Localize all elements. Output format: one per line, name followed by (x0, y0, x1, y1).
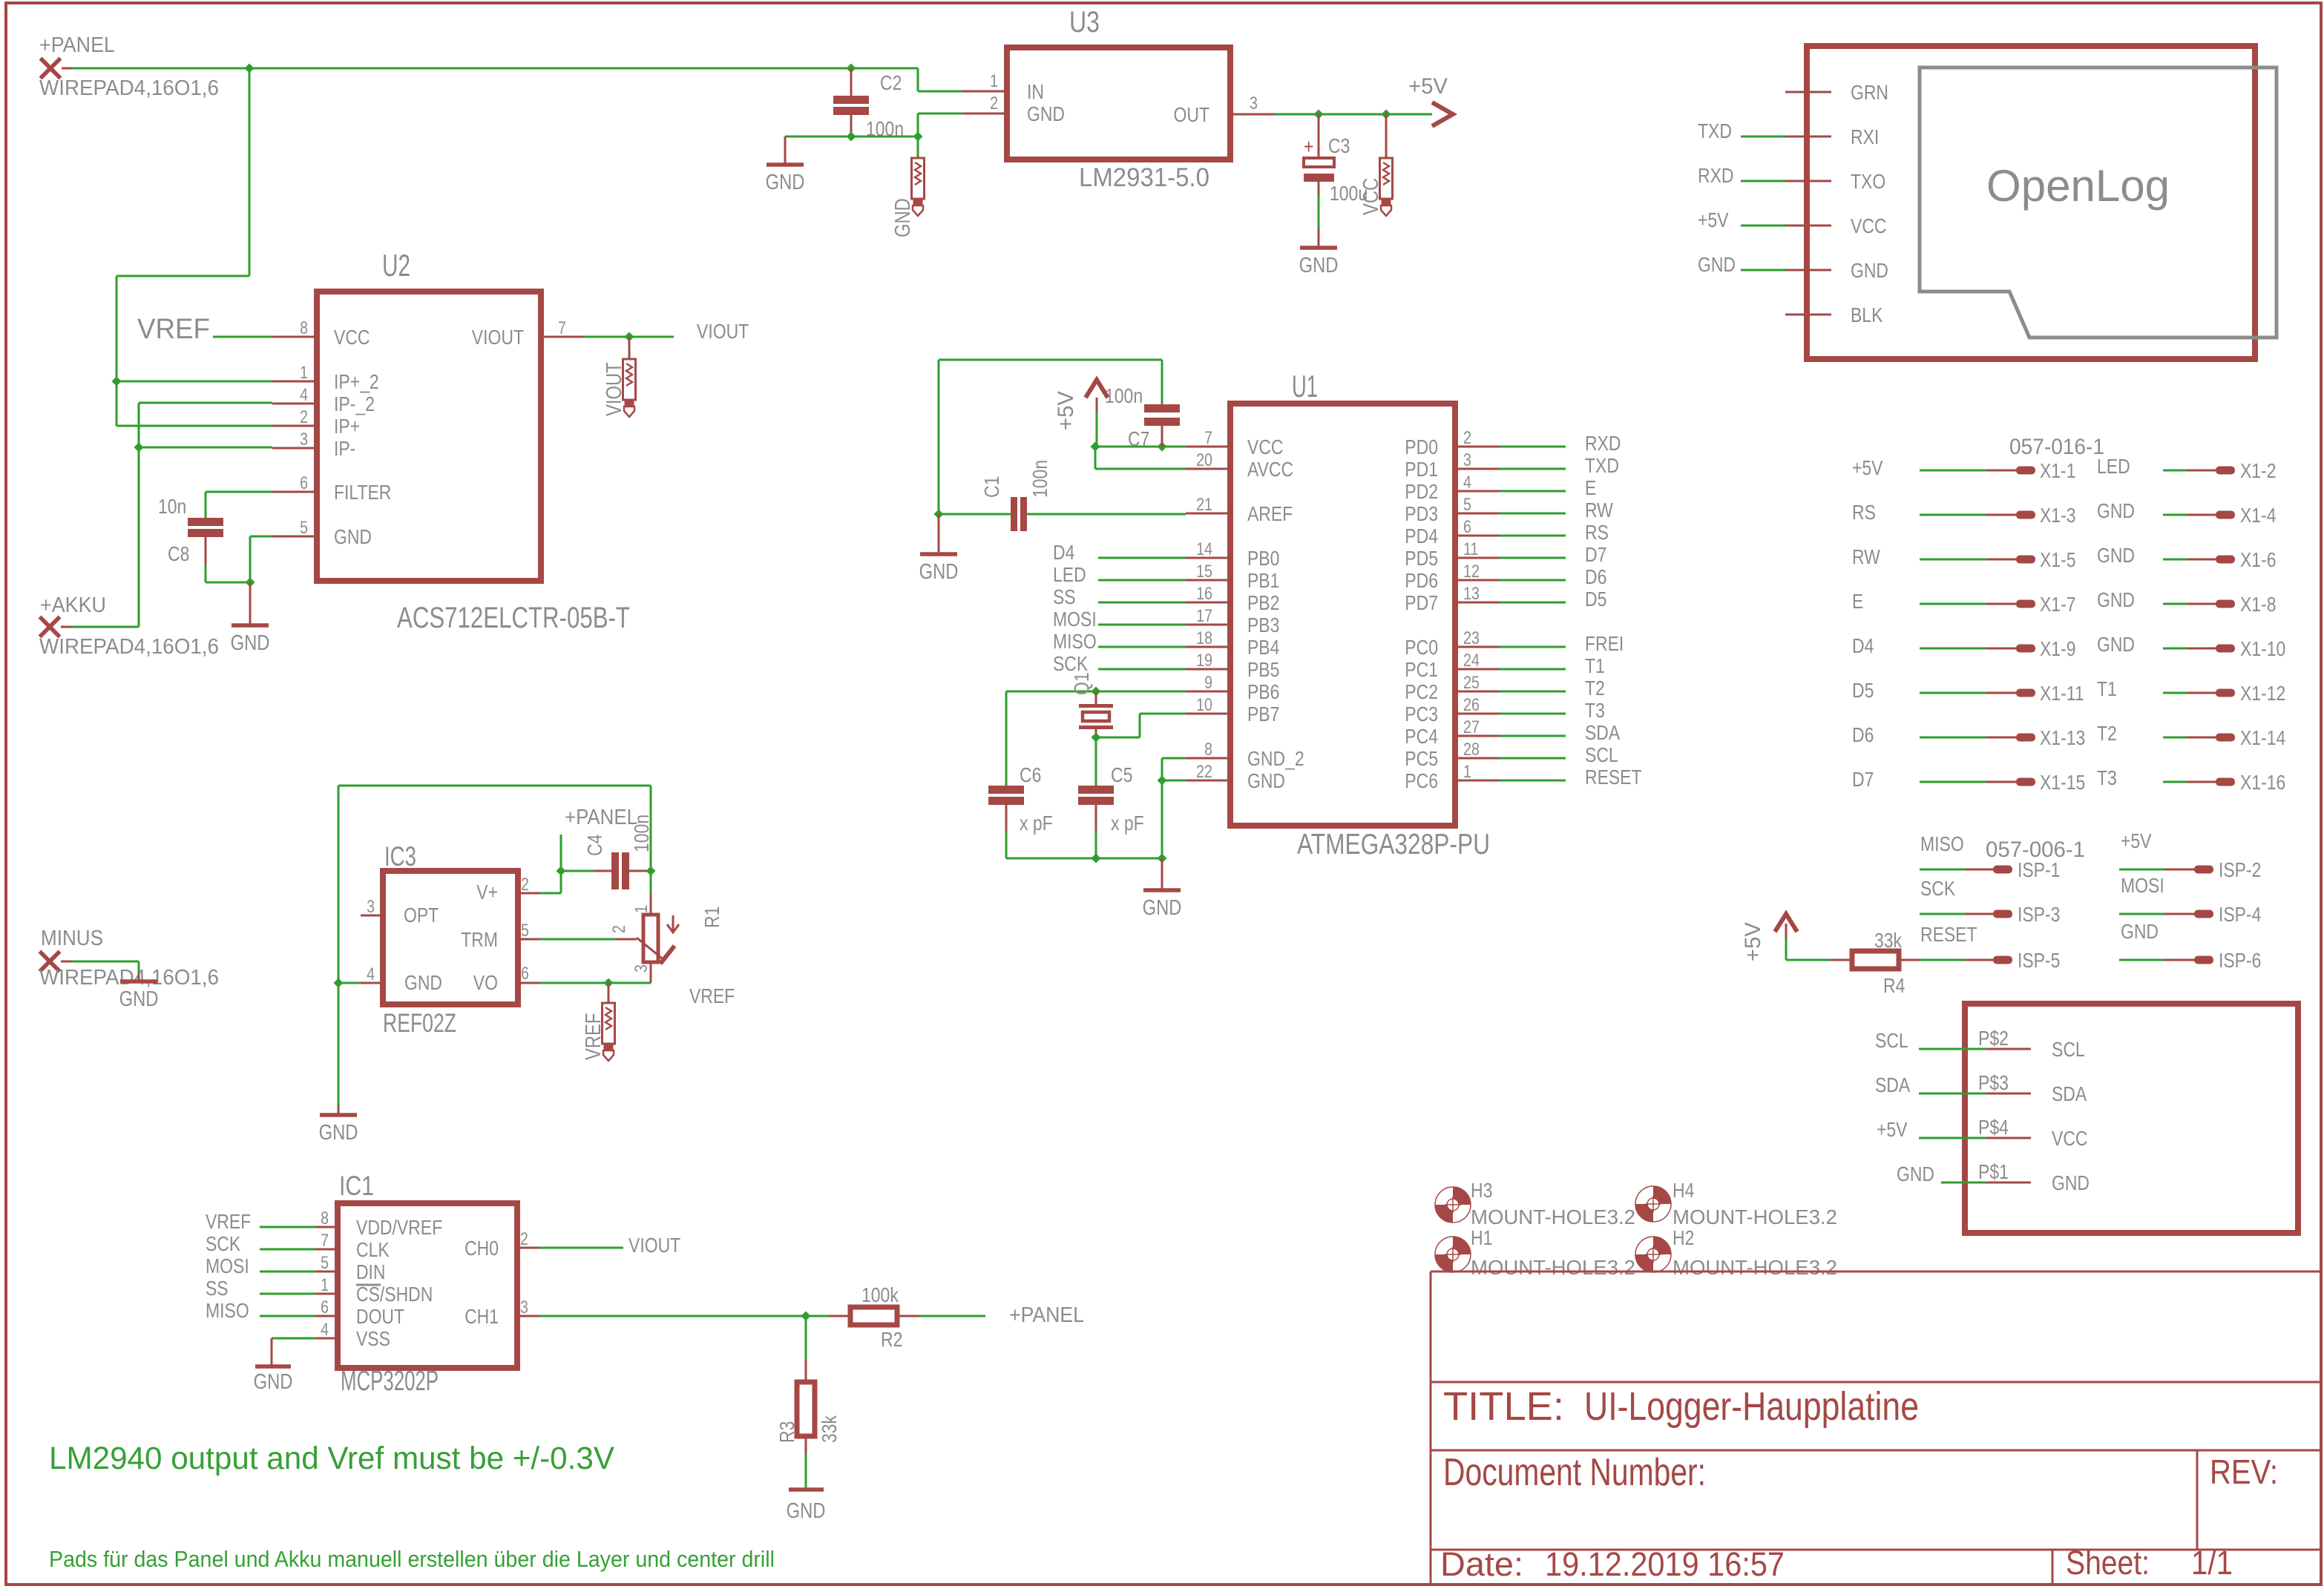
svg-text:28: 28 (1463, 740, 1480, 760)
svg-text:VREF: VREF (206, 1210, 251, 1233)
svg-text:VSS: VSS (356, 1327, 390, 1350)
svg-text:VCC: VCC (2052, 1127, 2088, 1150)
svg-text:TXD: TXD (1698, 119, 1732, 142)
svg-text:C1: C1 (980, 476, 1003, 498)
svg-text:PC1: PC1 (1405, 658, 1438, 681)
svg-text:X1-10: X1-10 (2240, 637, 2285, 660)
svg-text:+5V: +5V (1741, 922, 1765, 961)
svg-text:X1-13: X1-13 (2040, 726, 2085, 749)
svg-text:C4: C4 (583, 835, 606, 856)
svg-text:33k: 33k (1874, 929, 1903, 952)
svg-text:Q1: Q1 (1070, 672, 1093, 695)
svg-text:+PANEL: +PANEL (1009, 1303, 1084, 1327)
svg-text:R1: R1 (700, 907, 723, 928)
svg-text:RS: RS (1585, 521, 1609, 544)
svg-text:GND: GND (1851, 259, 1888, 282)
svg-text:PB5: PB5 (1247, 658, 1279, 681)
svg-text:D5: D5 (1585, 588, 1606, 611)
svg-text:CLK: CLK (356, 1238, 390, 1261)
svg-text:PD1: PD1 (1405, 458, 1438, 481)
svg-text:D6: D6 (1585, 565, 1606, 588)
svg-text:REV:: REV: (2210, 1453, 2278, 1491)
svg-text:VIOUT: VIOUT (697, 320, 749, 343)
svg-text:X1-7: X1-7 (2040, 593, 2076, 616)
svg-text:4: 4 (300, 385, 308, 405)
svg-text:IC3: IC3 (384, 841, 416, 872)
svg-text:x pF: x pF (1020, 812, 1053, 835)
svg-text:C2: C2 (880, 71, 902, 94)
svg-text:PB6: PB6 (1247, 680, 1279, 703)
svg-text:8: 8 (300, 318, 308, 338)
svg-text:ISP-4: ISP-4 (2219, 903, 2261, 926)
svg-text:+: + (1304, 135, 1313, 158)
svg-text:IP-: IP- (334, 437, 355, 460)
svg-text:GND: GND (334, 525, 372, 548)
svg-text:+5V: +5V (1054, 391, 1078, 430)
svg-text:C5: C5 (1111, 763, 1132, 786)
svg-text:PD4: PD4 (1405, 524, 1438, 547)
svg-text:IN: IN (1027, 80, 1044, 103)
svg-text:ISP-3: ISP-3 (2018, 903, 2060, 926)
svg-text:MISO: MISO (206, 1299, 249, 1322)
svg-text:PB4: PB4 (1247, 636, 1279, 659)
svg-text:MCP3202P: MCP3202P (341, 1366, 439, 1397)
svg-text:X1-12: X1-12 (2240, 682, 2285, 705)
svg-text:1: 1 (300, 363, 308, 383)
svg-text:17: 17 (1196, 606, 1212, 626)
svg-text:PC3: PC3 (1405, 703, 1438, 726)
svg-text:TITLE:: TITLE: (1443, 1384, 1564, 1429)
svg-text:P$4: P$4 (1978, 1116, 2009, 1139)
svg-text:7: 7 (321, 1231, 329, 1251)
svg-text:GND: GND (1299, 254, 1339, 277)
svg-text:VIOUT: VIOUT (472, 326, 524, 349)
svg-text:U2: U2 (382, 248, 410, 283)
svg-text:DIN: DIN (356, 1260, 386, 1283)
svg-text:19: 19 (1196, 651, 1212, 671)
svg-text:RESET: RESET (1585, 766, 1642, 789)
svg-text:+PANEL: +PANEL (39, 33, 115, 57)
svg-text:24: 24 (1463, 651, 1480, 671)
svg-text:SDA: SDA (2052, 1082, 2087, 1105)
svg-text:23: 23 (1463, 628, 1480, 648)
svg-text:X1-11: X1-11 (2040, 682, 2084, 705)
svg-text:D7: D7 (1852, 768, 1874, 791)
svg-text:3: 3 (1463, 450, 1471, 470)
svg-text:TXO: TXO (1851, 170, 1885, 193)
svg-text:2: 2 (1463, 428, 1471, 448)
svg-text:X1-6: X1-6 (2240, 548, 2277, 571)
svg-text:RW: RW (1852, 545, 1880, 568)
svg-text:2: 2 (300, 407, 308, 427)
svg-text:PB3: PB3 (1247, 613, 1279, 636)
svg-text:T1: T1 (1585, 654, 1605, 677)
svg-text:3: 3 (367, 897, 375, 917)
svg-text:CH1: CH1 (465, 1305, 499, 1328)
svg-text:1: 1 (990, 71, 998, 91)
svg-text:D5: D5 (1852, 679, 1874, 702)
svg-text:X1-1: X1-1 (2040, 459, 2076, 482)
svg-text:TXD: TXD (1585, 454, 1619, 477)
svg-text:OpenLog: OpenLog (1986, 161, 2170, 211)
svg-text:RXD: RXD (1585, 432, 1621, 455)
svg-text:VCC: VCC (1851, 214, 1887, 237)
svg-text:AVCC: AVCC (1247, 458, 1293, 481)
svg-text:12: 12 (1463, 562, 1480, 582)
svg-text:6: 6 (321, 1297, 329, 1317)
svg-text:H3: H3 (1471, 1179, 1492, 1202)
svg-text:PC6: PC6 (1405, 769, 1438, 792)
svg-text:+AKKU: +AKKU (40, 593, 106, 617)
svg-text:X1-15: X1-15 (2040, 771, 2085, 794)
svg-text:SS: SS (206, 1277, 229, 1300)
svg-text:PD3: PD3 (1405, 502, 1438, 525)
svg-text:+5V: +5V (1852, 456, 1883, 479)
svg-text:PD5: PD5 (1405, 547, 1438, 570)
svg-text:GND: GND (1027, 102, 1065, 125)
svg-text:CH0: CH0 (465, 1237, 499, 1260)
svg-text:P$2: P$2 (1978, 1027, 2009, 1050)
svg-text:10: 10 (1196, 695, 1212, 715)
svg-text:MOSI: MOSI (206, 1254, 249, 1277)
svg-text:SCL: SCL (1585, 743, 1618, 766)
svg-text:SS: SS (1053, 585, 1076, 608)
svg-text:VO: VO (473, 971, 498, 994)
svg-text:MOUNT-HOLE3.2: MOUNT-HOLE3.2 (1471, 1205, 1635, 1228)
svg-text:X1-9: X1-9 (2040, 637, 2076, 660)
svg-text:MOSI: MOSI (2121, 874, 2164, 897)
svg-text:GND_2: GND_2 (1247, 747, 1304, 770)
svg-text:IP-_2: IP-_2 (334, 392, 375, 415)
svg-text:LED: LED (2097, 455, 2130, 478)
svg-text:GND: GND (2121, 920, 2159, 943)
svg-text:27: 27 (1463, 717, 1480, 737)
svg-text:GND: GND (1698, 253, 1736, 276)
svg-text:PC5: PC5 (1405, 747, 1438, 770)
svg-text:100n: 100n (630, 815, 653, 852)
svg-text:PC2: PC2 (1405, 680, 1438, 703)
svg-text:GND: GND (404, 971, 442, 994)
svg-text:18: 18 (1196, 628, 1212, 648)
svg-text:26: 26 (1463, 695, 1480, 715)
svg-text:GND: GND (919, 560, 959, 584)
svg-text:TRM: TRM (461, 928, 498, 951)
svg-text:15: 15 (1196, 562, 1212, 582)
svg-text:IC1: IC1 (339, 1171, 374, 1201)
svg-text:REF02Z: REF02Z (383, 1009, 456, 1038)
svg-text:GND: GND (1897, 1162, 1934, 1185)
svg-text:R2: R2 (881, 1328, 902, 1351)
svg-text:+5V: +5V (1408, 74, 1448, 99)
svg-text:BLK: BLK (1851, 303, 1883, 326)
svg-text:X1-3: X1-3 (2040, 504, 2076, 527)
svg-text:Document Number:: Document Number: (1443, 1451, 1706, 1494)
svg-text:PD0: PD0 (1405, 435, 1438, 458)
svg-text:100n: 100n (1105, 384, 1143, 407)
svg-text:GRN: GRN (1851, 81, 1888, 104)
svg-text:RXI: RXI (1851, 125, 1879, 148)
svg-text:C7: C7 (1128, 427, 1149, 450)
svg-text:SDA: SDA (1875, 1073, 1910, 1096)
svg-text:VIOUT: VIOUT (628, 1234, 680, 1257)
svg-text:25: 25 (1463, 673, 1480, 693)
svg-text:1: 1 (321, 1275, 329, 1295)
svg-text:ISP-1: ISP-1 (2018, 858, 2060, 881)
svg-text:T3: T3 (1585, 699, 1605, 722)
svg-text:ATMEGA328P-PU: ATMEGA328P-PU (1297, 829, 1490, 861)
svg-text:VCC: VCC (334, 326, 370, 349)
svg-text:20: 20 (1196, 450, 1212, 470)
svg-text:SCK: SCK (206, 1232, 240, 1255)
svg-text:33k: 33k (818, 1415, 841, 1443)
svg-text:X1-4: X1-4 (2240, 504, 2277, 527)
svg-text:10n: 10n (158, 495, 186, 518)
svg-text:GND: GND (766, 171, 805, 194)
svg-text:PB7: PB7 (1247, 703, 1279, 726)
svg-text:FREI: FREI (1585, 632, 1624, 655)
svg-text:R4: R4 (1883, 974, 1905, 997)
svg-text:RW: RW (1585, 499, 1613, 522)
svg-text:PD6: PD6 (1405, 569, 1438, 592)
svg-text:H2: H2 (1673, 1226, 1694, 1249)
svg-text:3: 3 (300, 430, 308, 450)
svg-text:3: 3 (1250, 93, 1258, 113)
svg-text:WIREPAD4,16O1,6: WIREPAD4,16O1,6 (39, 966, 219, 990)
svg-text:VIOUT: VIOUT (603, 362, 626, 416)
svg-text:13: 13 (1463, 584, 1480, 604)
svg-text:SDA: SDA (1585, 721, 1620, 744)
svg-text:3: 3 (520, 1297, 528, 1317)
svg-text:2: 2 (990, 93, 998, 113)
svg-text:+5V: +5V (2121, 829, 2152, 852)
svg-text:4: 4 (367, 964, 375, 984)
svg-text:WIREPAD4,16O1,6: WIREPAD4,16O1,6 (39, 76, 219, 100)
svg-text:21: 21 (1196, 495, 1212, 515)
svg-text:22: 22 (1196, 762, 1212, 782)
svg-text:7: 7 (1204, 428, 1212, 448)
svg-text:LM2931-5.0: LM2931-5.0 (1079, 163, 1209, 192)
svg-text:D4: D4 (1852, 634, 1874, 657)
svg-text:PB1: PB1 (1247, 569, 1279, 592)
svg-text:ISP-6: ISP-6 (2219, 949, 2261, 972)
svg-text:T2: T2 (1585, 677, 1605, 700)
svg-text:5: 5 (521, 921, 529, 941)
svg-text:SCL: SCL (1875, 1029, 1908, 1052)
svg-text:7: 7 (558, 318, 566, 338)
svg-text:6: 6 (300, 473, 308, 493)
svg-text:SCK: SCK (1920, 877, 1955, 900)
svg-text:X1-5: X1-5 (2040, 548, 2076, 571)
svg-text:PB2: PB2 (1247, 591, 1279, 614)
svg-text:LM2940 output and Vref must be: LM2940 output and Vref must be +/-0.3V (49, 1441, 614, 1476)
svg-text:GND: GND (787, 1499, 826, 1523)
svg-text:MOUNT-HOLE3.2: MOUNT-HOLE3.2 (1471, 1256, 1635, 1279)
svg-text:LED: LED (1053, 563, 1086, 586)
svg-text:ACS712ELCTR-05B-T: ACS712ELCTR-05B-T (397, 602, 630, 634)
svg-text:GND: GND (319, 1121, 358, 1145)
svg-text:E: E (1852, 590, 1863, 613)
svg-text:GND: GND (2097, 588, 2135, 611)
svg-text:UI-Logger-Haupplatine: UI-Logger-Haupplatine (1584, 1384, 1919, 1429)
svg-text:8: 8 (321, 1208, 329, 1228)
svg-text:C3: C3 (1328, 134, 1350, 157)
svg-text:X1-8: X1-8 (2240, 593, 2277, 616)
svg-text:D6: D6 (1852, 723, 1874, 746)
svg-text:Pads für das Panel und Akku ma: Pads für das Panel und Akku manuell erst… (49, 1546, 775, 1572)
svg-text:GND: GND (119, 987, 159, 1011)
svg-text:+5V: +5V (1698, 208, 1729, 231)
svg-text:14: 14 (1196, 539, 1212, 559)
svg-text:E: E (1585, 476, 1596, 499)
svg-text:GND: GND (891, 198, 915, 237)
svg-text:GND: GND (1247, 769, 1285, 792)
svg-text:Sheet:: Sheet: (2066, 1544, 2150, 1582)
svg-text:1/1: 1/1 (2191, 1544, 2233, 1582)
svg-text:3: 3 (631, 964, 651, 973)
svg-text:X1-16: X1-16 (2240, 771, 2285, 794)
svg-text:GND: GND (2097, 499, 2135, 522)
svg-text:PB0: PB0 (1247, 547, 1279, 570)
svg-text:2: 2 (521, 875, 529, 895)
svg-text:4: 4 (321, 1320, 329, 1340)
svg-text:VREF: VREF (137, 314, 210, 345)
svg-text:GND: GND (2097, 544, 2135, 567)
svg-text:DOUT: DOUT (356, 1305, 404, 1328)
svg-text:+5V: +5V (1877, 1118, 1908, 1141)
svg-text:U3: U3 (1069, 6, 1100, 39)
svg-text:VREF: VREF (582, 1013, 605, 1060)
svg-text:RESET: RESET (1920, 923, 1977, 946)
svg-text:VCC: VCC (1359, 178, 1383, 215)
svg-text:Date:: Date: (1440, 1545, 1523, 1583)
svg-text:D4: D4 (1053, 541, 1074, 564)
svg-text:IP+_2: IP+_2 (334, 370, 379, 393)
svg-text:AREF: AREF (1247, 502, 1293, 525)
svg-text:MISO: MISO (1053, 630, 1097, 653)
svg-text:ISP-2: ISP-2 (2219, 858, 2261, 881)
svg-text:MINUS: MINUS (41, 927, 103, 950)
svg-text:5: 5 (321, 1253, 329, 1273)
svg-text:MOSI: MOSI (1053, 608, 1097, 631)
svg-text:057-016-1: 057-016-1 (2009, 435, 2104, 459)
svg-text:GND: GND (1143, 896, 1182, 920)
svg-text:GND: GND (231, 631, 270, 655)
svg-text:4: 4 (1463, 473, 1471, 493)
svg-text:H1: H1 (1471, 1226, 1492, 1249)
svg-text:VCC: VCC (1247, 435, 1284, 458)
svg-text:FILTER: FILTER (334, 481, 391, 504)
svg-text:WIREPAD4,16O1,6: WIREPAD4,16O1,6 (39, 635, 219, 659)
svg-text:T3: T3 (2097, 766, 2117, 789)
svg-text:C8: C8 (168, 542, 189, 565)
svg-text:11: 11 (1463, 539, 1478, 559)
svg-text:6: 6 (521, 964, 529, 984)
svg-text:IP+: IP+ (334, 415, 360, 438)
svg-text:x pF: x pF (1111, 812, 1144, 835)
svg-text:100k: 100k (861, 1283, 899, 1306)
svg-text:RS: RS (1852, 501, 1876, 524)
svg-text:VREF: VREF (689, 984, 735, 1007)
svg-text:D7: D7 (1585, 543, 1606, 566)
svg-text:VDD/VREF: VDD/VREF (356, 1216, 442, 1239)
svg-text:19.12.2019 16:57: 19.12.2019 16:57 (1545, 1545, 1785, 1583)
svg-text:OUT: OUT (1174, 103, 1210, 126)
svg-text:P$1: P$1 (1978, 1160, 2009, 1183)
svg-text:PC0: PC0 (1405, 636, 1438, 659)
svg-text:GND: GND (254, 1370, 293, 1394)
svg-text:H4: H4 (1673, 1179, 1694, 1202)
svg-text:R3: R3 (775, 1421, 798, 1443)
svg-text:C6: C6 (1020, 763, 1041, 786)
svg-text:+PANEL: +PANEL (565, 806, 637, 829)
svg-text:16: 16 (1196, 584, 1212, 604)
svg-text:PD7: PD7 (1405, 591, 1438, 614)
svg-text:GND: GND (2052, 1171, 2090, 1194)
svg-text:SCK: SCK (1053, 652, 1088, 675)
svg-text:ISP-5: ISP-5 (2018, 949, 2060, 972)
svg-text:8: 8 (1204, 740, 1212, 760)
svg-text:MISO: MISO (1920, 832, 1964, 855)
svg-text:U1: U1 (1292, 369, 1318, 404)
svg-text:OPT: OPT (404, 904, 439, 927)
svg-text:X1-14: X1-14 (2240, 726, 2285, 749)
svg-text:MOUNT-HOLE3.2: MOUNT-HOLE3.2 (1673, 1256, 1837, 1279)
svg-text:P$3: P$3 (1978, 1071, 2009, 1094)
svg-text:1: 1 (631, 905, 651, 913)
svg-text:1: 1 (1463, 762, 1471, 782)
svg-text:T2: T2 (2097, 722, 2117, 745)
svg-text:T1: T1 (2097, 677, 2117, 700)
svg-text:GND: GND (2097, 633, 2135, 656)
svg-text:CS/SHDN: CS/SHDN (356, 1283, 433, 1306)
svg-text:MOUNT-HOLE3.2: MOUNT-HOLE3.2 (1673, 1205, 1837, 1228)
svg-text:PC4: PC4 (1405, 725, 1438, 748)
svg-text:100n: 100n (1028, 460, 1051, 498)
svg-text:6: 6 (1463, 517, 1471, 537)
svg-text:RXD: RXD (1698, 164, 1734, 187)
svg-text:SCL: SCL (2052, 1038, 2085, 1061)
svg-text:2: 2 (520, 1229, 528, 1249)
svg-text:5: 5 (1463, 495, 1471, 515)
svg-text:9: 9 (1204, 673, 1212, 693)
svg-text:2: 2 (609, 925, 629, 933)
svg-text:5: 5 (300, 518, 308, 538)
svg-text:X1-2: X1-2 (2240, 459, 2277, 482)
svg-text:PD2: PD2 (1405, 480, 1438, 503)
svg-text:V+: V+ (476, 881, 498, 904)
